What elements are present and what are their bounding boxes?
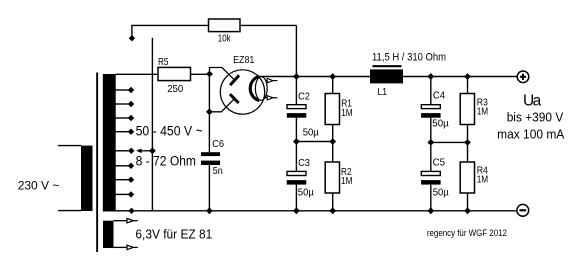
- wire R1-R2 column: [332, 77, 334, 211]
- node rail-R3 junction: [464, 73, 471, 80]
- resistor R4: [460, 162, 474, 193]
- wire selector arrow to 8-72 Ohm tap: [136, 149, 152, 154]
- svg-text:50µ: 50µ: [303, 126, 319, 138]
- svg-text:50µ: 50µ: [433, 186, 449, 198]
- wire midpoint link right: [431, 141, 468, 143]
- terminal - output: [517, 204, 529, 216]
- secondary winding taps: [116, 87, 135, 214]
- node rail-R2 bottom junction: [329, 207, 336, 214]
- node anode top: [206, 71, 213, 78]
- capacitor C6: [201, 152, 220, 165]
- wire R3-R4 column: [467, 77, 469, 211]
- svg-text:EZ81: EZ81: [233, 54, 254, 66]
- svg-text:1M: 1M: [477, 174, 489, 186]
- transformer heater winding 6.3V: [103, 219, 138, 250]
- node rail-C5 bottom junction: [427, 207, 434, 214]
- resistor R5: [158, 67, 191, 80]
- wire 10k loop top: [132, 25, 297, 76]
- wire anode column: [208, 74, 210, 211]
- capacitor C2: [287, 105, 307, 118]
- wire B+ top rail: [258, 76, 517, 78]
- svg-text:Ua: Ua: [523, 92, 542, 109]
- svg-text:230 V ~: 230 V ~: [18, 179, 60, 193]
- transformer T1 primary winding: [58, 146, 93, 211]
- svg-text:C6: C6: [212, 138, 224, 150]
- svg-text:5n: 5n: [213, 165, 223, 177]
- node C4-C5 midpoint: [427, 139, 434, 146]
- svg-text:bis +390 V: bis +390 V: [507, 109, 564, 124]
- svg-text:250: 250: [167, 83, 183, 95]
- wire tap selector column: [151, 38, 153, 211]
- svg-text:C5: C5: [433, 156, 446, 168]
- node rail-C3 bottom junction: [293, 207, 300, 214]
- resistor R3: [460, 94, 474, 125]
- node HV tap terminal (10k feed): [129, 35, 135, 41]
- transformer T1 HV secondary winding: [103, 74, 116, 212]
- node rail-C2 junction: [293, 73, 300, 80]
- node rail-C4 junction: [427, 73, 434, 80]
- wire ground bottom rail: [131, 210, 517, 212]
- resistor 10k: [209, 19, 241, 32]
- node rail-C6 bottom junction: [206, 207, 213, 214]
- svg-text:50µ: 50µ: [298, 186, 314, 198]
- svg-text:R5: R5: [158, 56, 169, 68]
- node selector junction: [149, 147, 156, 154]
- resistor R1: [325, 94, 339, 125]
- node anode bottom: [206, 108, 213, 115]
- capacitor C3: [287, 171, 307, 184]
- node rail-R4 bottom junction: [464, 207, 471, 214]
- svg-text:C4: C4: [433, 90, 445, 102]
- svg-text:10k: 10k: [218, 33, 231, 45]
- resistor R2: [325, 162, 339, 193]
- svg-text:1M: 1M: [341, 107, 353, 119]
- wire secondary top to R5: [116, 73, 210, 75]
- inductor L1: [370, 66, 403, 83]
- svg-text:6,3V für EZ 81: 6,3V für EZ 81: [135, 227, 212, 242]
- svg-text:C2: C2: [298, 90, 310, 102]
- svg-text:8 - 72 Ohm: 8 - 72 Ohm: [136, 154, 196, 169]
- node R3-R4 midpoint: [464, 139, 471, 146]
- transformer core: [96, 73, 98, 253]
- node rail-R1 junction: [329, 73, 336, 80]
- wire C4-C5 column: [430, 77, 432, 211]
- wire C2-C3 column: [295, 77, 297, 211]
- svg-text:50 - 450 V ~: 50 - 450 V ~: [136, 124, 203, 139]
- capacitor C5: [421, 171, 441, 184]
- svg-text:C3: C3: [298, 157, 310, 169]
- svg-text:50µ: 50µ: [432, 118, 448, 130]
- svg-text:regency für WGF 2012: regency für WGF 2012: [427, 228, 507, 238]
- node C2-C3 midpoint: [293, 138, 300, 145]
- terminal + output: [517, 71, 529, 83]
- svg-text:1M: 1M: [341, 175, 353, 187]
- svg-text:11,5 H / 310 Ohm: 11,5 H / 310 Ohm: [372, 52, 446, 64]
- node R1-R2 midpoint: [329, 138, 336, 145]
- tube EZ81: [209, 68, 277, 115]
- svg-text:1M: 1M: [477, 106, 489, 118]
- svg-text:max 100 mA: max 100 mA: [497, 127, 564, 142]
- capacitor C4: [421, 105, 441, 118]
- wire midpoint link left: [296, 141, 332, 143]
- svg-text:L1: L1: [378, 86, 388, 98]
